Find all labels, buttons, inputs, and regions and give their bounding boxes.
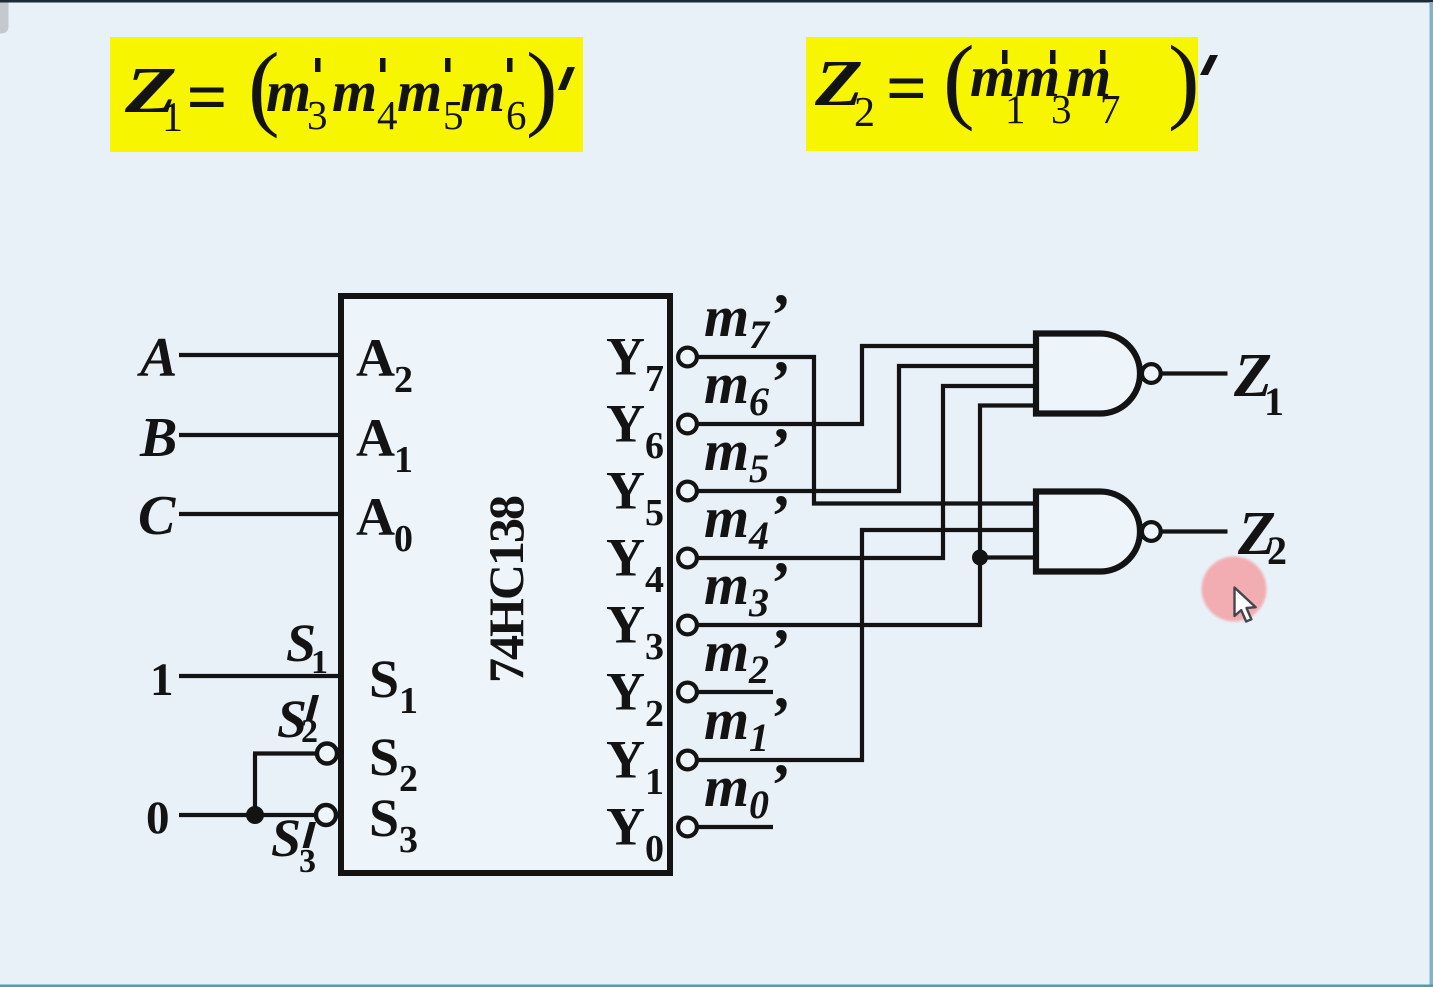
svg-text:5: 5 — [749, 446, 769, 491]
svg-text:m: m — [704, 485, 749, 550]
svg-text:0: 0 — [645, 828, 664, 870]
svg-text:4: 4 — [645, 559, 664, 601]
svg-text:m: m — [704, 351, 749, 416]
svg-text:1: 1 — [399, 680, 418, 722]
svg-text:Y: Y — [606, 730, 645, 790]
svg-text:): ) — [526, 33, 558, 139]
wire S1 input — [179, 674, 341, 678]
wire A input — [179, 353, 341, 357]
svg-text:3: 3 — [299, 843, 316, 880]
bubble G1 output — [1142, 364, 1161, 383]
svg-text:m: m — [266, 59, 311, 124]
pin Y7 bubble — [678, 348, 697, 367]
svg-text:2: 2 — [748, 647, 769, 692]
svg-text:Y: Y — [606, 394, 645, 454]
nand gate G2 — [1036, 492, 1140, 572]
svg-text:0: 0 — [749, 782, 769, 827]
svg-text:7: 7 — [645, 358, 664, 400]
mouse cursor — [1235, 588, 1256, 622]
right border line — [1430, 2, 1433, 987]
svg-text:B: B — [139, 407, 177, 469]
svg-text:S: S — [369, 727, 399, 787]
junction dot 0/S2/S3 — [246, 806, 264, 824]
svg-text:m: m — [704, 284, 749, 349]
svg-text:A: A — [356, 487, 395, 547]
svg-text:2: 2 — [854, 90, 875, 136]
bubble S2 — [317, 744, 337, 764]
svg-text:Y: Y — [606, 528, 645, 588]
wire m0 stub — [698, 825, 773, 829]
wire m2 stub — [698, 690, 773, 694]
svg-text:1: 1 — [162, 95, 183, 141]
svg-text:): ) — [1168, 26, 1200, 132]
svg-text:m: m — [704, 754, 749, 819]
svg-text:’: ’ — [771, 282, 791, 348]
wire C input — [179, 512, 341, 516]
wire m5 to G1 input 2 — [698, 366, 1036, 491]
svg-text:3: 3 — [748, 580, 769, 625]
svg-text:Y: Y — [606, 662, 645, 722]
svg-text:m: m — [704, 418, 749, 483]
wire Z1 output — [1162, 371, 1228, 375]
bottom border line — [0, 985, 1433, 987]
wire B input — [179, 433, 341, 437]
decoder U1 74HC138 body — [341, 296, 670, 873]
bubble G2 output — [1142, 522, 1161, 541]
svg-text:6: 6 — [506, 92, 527, 138]
svg-text:2: 2 — [1267, 528, 1287, 573]
top-left gray tab — [0, 3, 9, 34]
svg-text:1: 1 — [1264, 379, 1284, 424]
svg-text:m: m — [460, 59, 505, 124]
svg-text:=: = — [886, 48, 927, 128]
svg-text:C: C — [138, 485, 176, 547]
wire m4 to G1 input 3 — [698, 386, 1036, 558]
svg-text:m: m — [397, 59, 442, 124]
svg-text:1: 1 — [749, 715, 769, 760]
svg-text:1: 1 — [394, 439, 413, 481]
svg-text:m: m — [704, 687, 749, 752]
svg-text:7: 7 — [1100, 86, 1121, 132]
junction dot m3 branch — [972, 550, 988, 566]
wire m7 to G2 input 1 — [698, 357, 1036, 504]
svg-text:1: 1 — [311, 644, 328, 681]
pin Y4 bubble — [678, 549, 697, 568]
svg-text:6: 6 — [749, 379, 769, 424]
pin Y0 bubble — [678, 818, 697, 837]
bubble S3 — [316, 805, 336, 825]
svg-text:2: 2 — [645, 693, 664, 735]
svg-text:1: 1 — [150, 654, 174, 706]
svg-text:A: A — [356, 328, 395, 388]
svg-text:m: m — [704, 552, 749, 617]
nand gate G1 — [1036, 334, 1140, 414]
svg-text:3: 3 — [307, 92, 328, 138]
wire m3 to G1 input 4 — [698, 406, 1036, 626]
svg-text:2: 2 — [394, 359, 413, 401]
formula 2: Z2 = (m1'm3'm7')' — [814, 26, 1218, 136]
svg-text:74HC138: 74HC138 — [478, 496, 534, 683]
svg-text:S: S — [369, 788, 399, 848]
svg-text:2: 2 — [399, 758, 418, 800]
svg-text:m: m — [332, 59, 377, 124]
pin Y6 bubble — [678, 415, 697, 434]
svg-text:A: A — [356, 408, 395, 468]
svg-text:3: 3 — [399, 819, 418, 861]
svg-text:1: 1 — [645, 761, 664, 803]
svg-text:Y: Y — [606, 595, 645, 655]
svg-text:S: S — [369, 649, 399, 709]
svg-text:S: S — [271, 808, 301, 868]
svg-text:0: 0 — [146, 792, 170, 844]
cursor highlight circle — [1202, 557, 1267, 622]
pin Y2 bubble — [678, 683, 697, 702]
wire Z2 output — [1162, 529, 1228, 533]
pin Y5 bubble — [678, 482, 697, 501]
svg-text:A: A — [137, 327, 177, 389]
wire S2 branch vertical — [253, 754, 257, 816]
formula 1 highlight box — [110, 37, 583, 152]
wire m3 branch to G2 input 3 — [980, 555, 1036, 559]
svg-text:Y: Y — [606, 461, 645, 521]
svg-text:3: 3 — [645, 626, 664, 668]
svg-text:5: 5 — [645, 492, 664, 534]
svg-text:Y: Y — [606, 327, 645, 387]
svg-text:7: 7 — [749, 312, 771, 357]
wire S2 branch horizontal — [253, 751, 316, 755]
svg-text:0: 0 — [394, 518, 413, 560]
svg-text:=: = — [187, 57, 228, 137]
svg-text:’: ’ — [771, 685, 791, 751]
wire m6 to G1 input 1 — [698, 346, 1036, 424]
pin Y3 bubble — [678, 616, 697, 635]
svg-text:4: 4 — [748, 513, 769, 558]
wire 0 to S3 bubble — [179, 813, 315, 817]
formula 2 highlight box — [806, 37, 1198, 151]
formula 1: Z1 = (m3'm4'm5'm6')' — [124, 33, 575, 141]
pin Y1 bubble — [678, 751, 697, 770]
wire m1 to G2 input 2 — [698, 530, 1036, 760]
top border line — [0, 0, 1433, 3]
svg-text:6: 6 — [645, 425, 664, 467]
svg-text:4: 4 — [377, 92, 398, 138]
svg-text:Y: Y — [606, 797, 645, 857]
svg-text:m: m — [704, 619, 749, 684]
